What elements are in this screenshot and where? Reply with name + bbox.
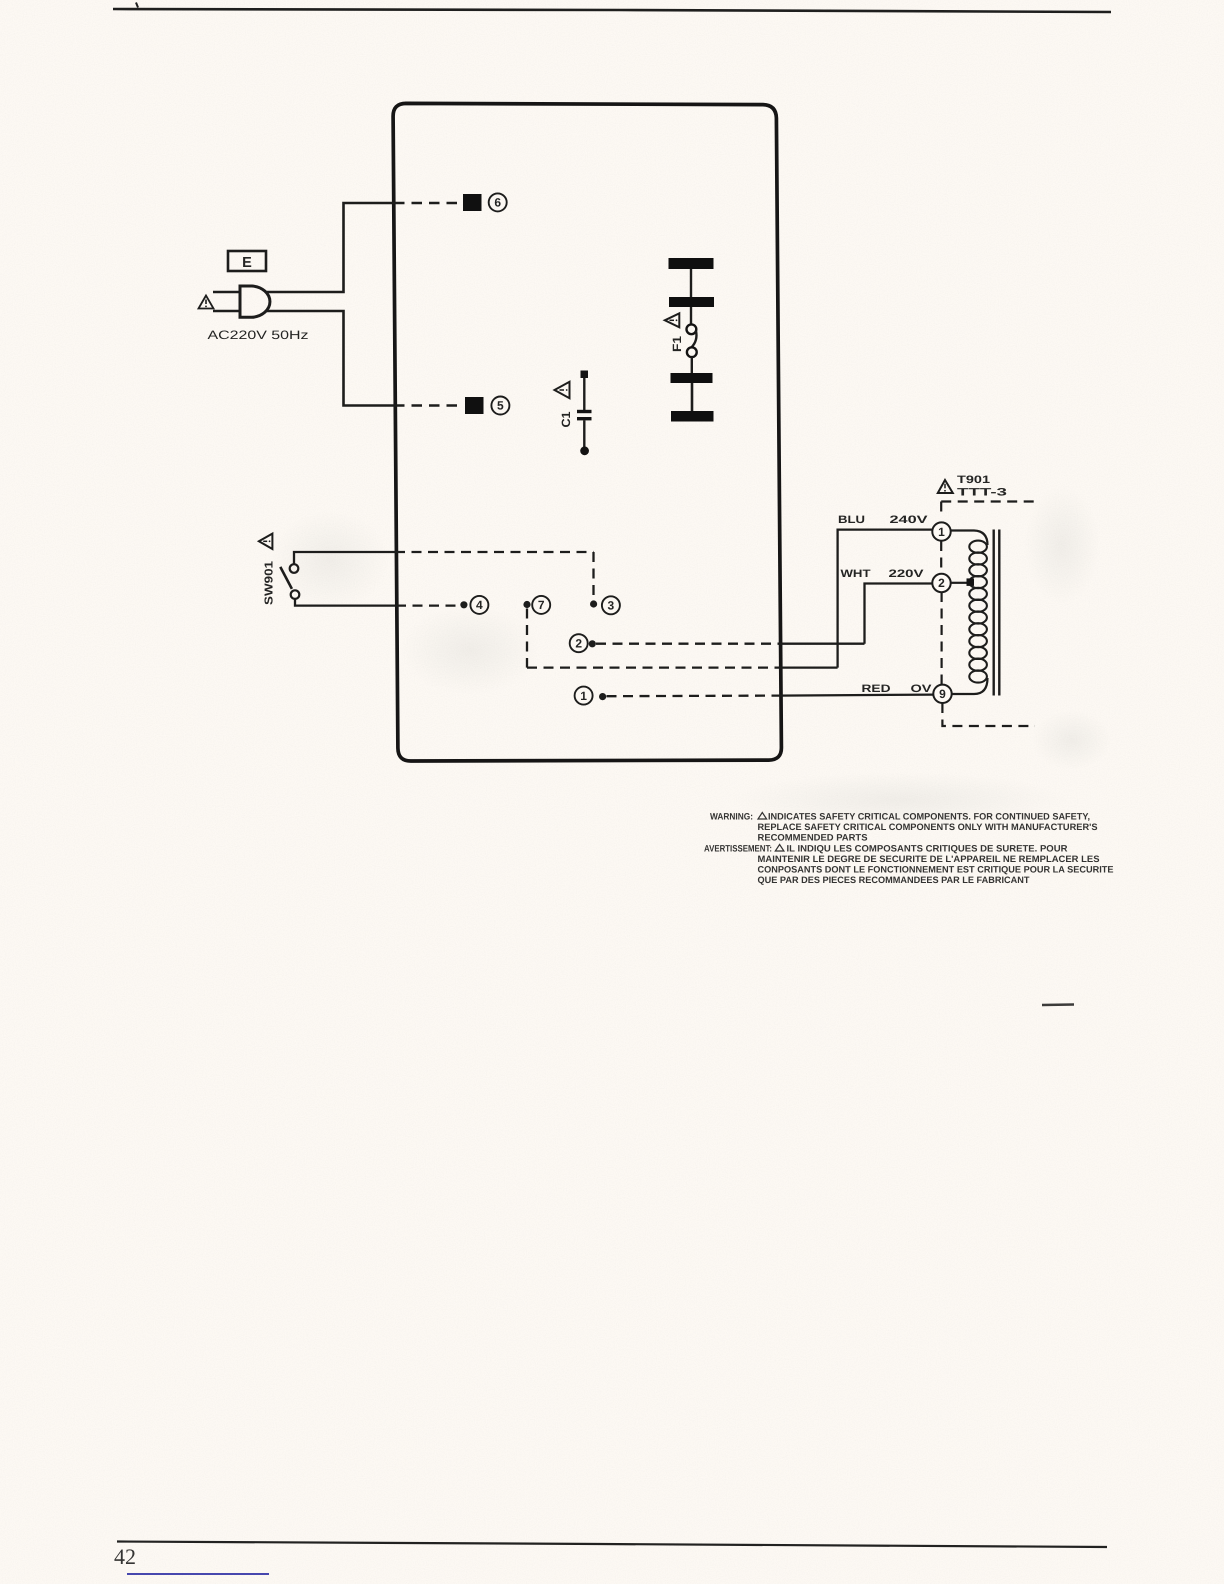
reference label T901 xyxy=(957,474,990,486)
svg-text:1: 1 xyxy=(580,689,587,703)
node 1 xyxy=(575,687,607,705)
wire: RED lead into terminal 9 xyxy=(778,695,933,696)
AC plug xyxy=(240,286,270,317)
value label TTT-3 xyxy=(957,487,1007,499)
wire: plug bottom to corner down to terminal 5 level xyxy=(266,311,394,406)
wire: dashed run to node 3 xyxy=(395,551,594,553)
svg-text:2: 2 xyxy=(938,576,945,590)
wire label 220V xyxy=(889,568,925,580)
svg-text:3: 3 xyxy=(608,599,615,613)
svg-text:BLU: BLU xyxy=(838,514,865,526)
transformer T901 dashed enclosure top xyxy=(941,500,1035,502)
svg-text:RED: RED xyxy=(862,683,891,695)
svg-text:F1: F1 xyxy=(670,336,684,352)
capacitor C1 xyxy=(577,371,592,456)
node 7 xyxy=(523,596,550,614)
safety triangle (F1) xyxy=(665,313,680,327)
wire: plug top to corner up to terminal 6 level xyxy=(266,203,394,292)
svg-text:5: 5 xyxy=(497,399,504,413)
wire: dashed drop from node 7 xyxy=(526,609,528,668)
wire label BLU xyxy=(838,514,865,526)
fuse F1 clip bar 4 xyxy=(671,411,714,422)
svg-text:OV: OV xyxy=(911,683,933,695)
reference label F1 (rotated) xyxy=(670,336,684,352)
wire: fuse lower link xyxy=(691,383,694,411)
svg-text:6: 6 xyxy=(494,196,501,210)
wire label 240V xyxy=(890,514,929,526)
chassis board outline xyxy=(393,103,781,761)
wire label RED xyxy=(862,683,891,695)
transformer T901 dashed primary spine xyxy=(940,541,942,574)
transformer terminal 1 xyxy=(932,522,950,540)
svg-text:TTT-3: TTT-3 xyxy=(957,487,1007,499)
svg-text:C1: C1 xyxy=(559,411,573,427)
transformer tap to terminal 2 xyxy=(951,578,974,586)
svg-text:SW901: SW901 xyxy=(264,560,276,605)
svg-text:INDICATES SAFETY CRITICAL COMP: INDICATES SAFETY CRITICAL COMPONENTS. FO… xyxy=(768,812,1090,822)
wire: top prong lead xyxy=(213,291,240,293)
terminal 6 (square pad) xyxy=(463,194,482,211)
wire label 0V xyxy=(911,683,933,695)
node label 5 xyxy=(491,397,509,415)
wire: dashed into node 4 xyxy=(396,604,460,606)
reference label SW901 (rotated) xyxy=(264,560,276,605)
wire: WHT corner stub xyxy=(778,643,865,645)
svg-text:7: 7 xyxy=(538,598,545,612)
wire: fuse clip link xyxy=(690,269,692,297)
node 3 xyxy=(590,596,620,614)
transformer primary winding xyxy=(969,541,987,683)
value label C1 (rotated) xyxy=(559,411,573,427)
svg-text:2: 2 xyxy=(575,636,582,650)
wire label WHT xyxy=(841,568,871,580)
fuse F1 element xyxy=(687,307,697,373)
wire: dashed drop to node 3 xyxy=(592,552,594,600)
fuse F1 clip bar 3 xyxy=(671,373,713,383)
svg-text:WARNING:: WARNING: xyxy=(710,812,753,822)
svg-text:CONPOSANTS DONT LE FONCTIONNEM: CONPOSANTS DONT LE FONCTIONNEMENT EST CR… xyxy=(758,865,1114,875)
fuse F1 clip bar top xyxy=(669,258,714,269)
safety triangle (SW901) xyxy=(259,534,273,549)
transformer terminal 9 xyxy=(933,685,951,703)
svg-text:QUE PAR DES PIECES RECOMMANDEE: QUE PAR DES PIECES RECOMMANDEES PAR LE F… xyxy=(758,875,1030,885)
wire: dashed into terminal 6 xyxy=(394,202,462,205)
svg-text:AVERTISSEMENT:: AVERTISSEMENT: xyxy=(704,844,772,854)
wire: dashed run node 2 to WHT corner xyxy=(596,643,778,645)
fuse F1 clip bar 2 xyxy=(669,297,714,307)
wire: dashed run node 7 to BLU corner xyxy=(527,666,778,668)
transformer winding entry from terminal 1 xyxy=(951,531,988,546)
svg-text:MAINTENIR LE DEGRE DE SECURITE: MAINTENIR LE DEGRE DE SECURITE DE L'APPA… xyxy=(758,854,1100,864)
transformer core xyxy=(994,530,1000,696)
svg-text:1: 1 xyxy=(938,525,945,539)
svg-text:RECOMMENDED PARTS: RECOMMENDED PARTS xyxy=(758,833,868,843)
safety triangle (T901) xyxy=(938,480,953,493)
wire: bottom prong lead xyxy=(213,310,240,312)
svg-text:E: E xyxy=(242,255,252,271)
svg-text:4: 4 xyxy=(476,598,483,612)
svg-text:AC220V 50Hz: AC220V 50Hz xyxy=(208,328,309,342)
warning note text xyxy=(704,812,1114,886)
node 4 xyxy=(460,596,488,614)
transformer winding exit to terminal 9 xyxy=(952,678,988,694)
switch SW901 xyxy=(280,564,299,599)
transformer terminal 2 xyxy=(932,574,950,592)
wire: BLU corner stub xyxy=(778,666,838,668)
svg-text:WHT: WHT xyxy=(841,568,871,580)
node label 6 xyxy=(489,193,507,211)
wire: dashed into terminal 5 xyxy=(394,404,464,407)
svg-text:T901: T901 xyxy=(957,474,990,486)
wire: switch top to node 3 run xyxy=(294,552,395,564)
wire: switch bottom to node 4 xyxy=(295,599,396,606)
svg-text:42: 42 xyxy=(114,1544,136,1569)
wire: dashed run node 1 to RED lead xyxy=(607,694,779,697)
wire: WHT lead from corner up to terminal 2 xyxy=(865,584,933,644)
wire: BLU lead from corner up to terminal 1 xyxy=(838,530,932,668)
safety triangle (plug) xyxy=(199,296,214,309)
safety triangle (C1) xyxy=(555,382,570,398)
transformer T901 dashed enclosure bottom xyxy=(942,703,1035,726)
svg-text:9: 9 xyxy=(939,687,946,701)
label AC220V 50Hz xyxy=(208,328,309,342)
terminal 5 (square pad) xyxy=(465,397,484,414)
node 2 xyxy=(570,634,596,652)
svg-text:220V: 220V xyxy=(889,568,925,580)
earth terminal box E xyxy=(228,251,266,271)
svg-text:IL INDIQU LES COMPOSANTS CRITI: IL INDIQU LES COMPOSANTS CRITIQUES DE SU… xyxy=(787,844,1068,854)
svg-text:240V: 240V xyxy=(890,514,929,526)
svg-text:REPLACE SAFETY CRITICAL COMPON: REPLACE SAFETY CRITICAL COMPONENTS ONLY … xyxy=(758,822,1098,832)
